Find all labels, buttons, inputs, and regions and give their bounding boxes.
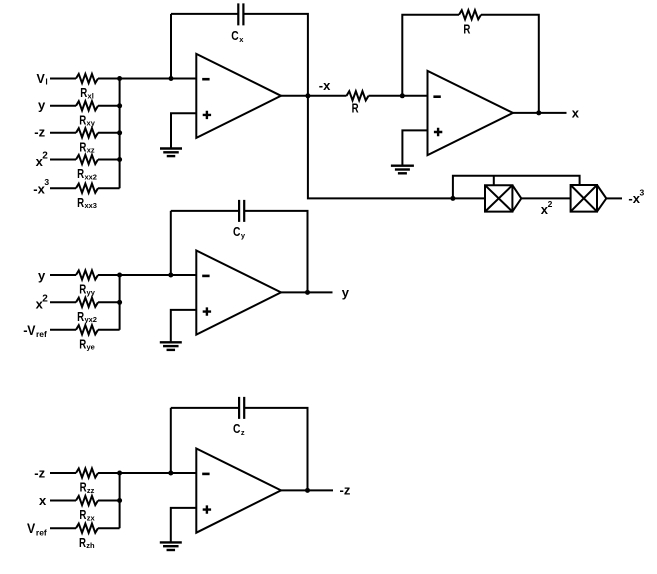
wire input row xl right lead [98,78,120,80]
junction U3 output node y [305,290,310,295]
svg-text:2: 2 [42,293,48,304]
svg-text:xx2: xx2 [84,172,97,181]
wire summing bus S2 [119,275,121,330]
svg-text:2: 2 [42,151,48,162]
svg-text:C: C [233,422,240,436]
wire U2 feedback rail right [481,15,539,113]
junction bus S1 at y=105.8 [117,103,122,108]
junction U1 output node -x [305,93,310,98]
svg-text:R: R [79,283,86,297]
op-amp U3 [196,251,281,335]
svg-text:R: R [77,196,84,210]
svg-text:y: y [342,285,350,300]
U3 non-inverting pin mark + [203,307,211,315]
junction bus S3 at y=473.0 [117,471,122,476]
junction bus S1 at y=78.5 [117,76,122,81]
svg-text:y: y [38,97,46,112]
svg-text:zz: zz [87,486,95,495]
resistor Rxl [76,74,98,83]
wire U3 non-inverting to ground [171,310,197,342]
wire input row zh right lead [98,527,120,529]
wire bus to U3 inverting input [120,274,197,276]
svg-text:2: 2 [548,199,553,209]
capacitor Cz [239,397,244,419]
junction U4 output node -z [305,488,310,493]
wire bus to U4 inverting input [120,472,197,474]
svg-text:ref: ref [36,329,47,339]
wire input row zx right lead [98,500,120,502]
wire input row zz left lead [50,472,76,474]
wire drop to A1 Y input [493,176,495,186]
multiplier A2 (cuber) [571,185,597,212]
ground GND3 [160,341,182,343]
wire input row xx3 right lead [98,187,120,189]
junction U2 output node x [536,110,541,115]
wire input row zh left lead [50,527,76,529]
wire A2 output (node -x^3) [606,197,622,199]
resistor Ryy [76,270,98,279]
wire input row xy left lead [50,105,76,107]
wire U1 feedback up [170,14,172,79]
resistor Rye [76,325,98,334]
svg-text:-x: -x [319,78,331,93]
svg-text:zx: zx [87,513,96,522]
capacitor Cy [239,200,244,222]
resistor Rzx [76,496,98,505]
junction feedback tap U3 [168,273,173,278]
op-amp U4 [196,449,281,533]
U2 non-inverting pin mark + [434,128,442,136]
svg-text:-z: -z [34,124,45,139]
svg-text:-z: -z [34,465,45,480]
svg-text:C: C [231,29,238,43]
resistor R (feedback of U2) [459,10,481,19]
wire R to U2 inverting input [369,95,428,97]
wire U4 feedback up [170,408,172,473]
wire input row xz left lead [50,132,76,134]
svg-text:x: x [39,493,47,508]
svg-text:R: R [79,113,86,127]
wire U3 feedback up [170,211,172,275]
svg-text:3: 3 [44,177,49,187]
junction bus S1 at y=159.5 [117,157,122,162]
wire input row yy right lead [98,274,120,276]
wire U2 feedback up [402,15,459,96]
svg-text:R: R [80,481,87,495]
svg-text:z: z [241,428,245,437]
svg-text:R: R [352,102,359,116]
wire U3 feedback rail right [244,211,307,293]
resistor Rxz [76,128,98,137]
U3 inverting pin mark - [202,275,209,278]
wire U1 output to R (node -x) [281,95,347,97]
resistor R (input of U2) [347,91,369,100]
wire U4 output (node -z) [281,489,333,491]
svg-text:ref: ref [36,527,47,537]
wire input row xx2 right lead [98,159,120,161]
wire input row yx2 right lead [98,301,120,303]
junction bus S3 at y=500.5 [117,498,122,503]
wire multiplier top rail [453,176,580,199]
svg-text:xz: xz [87,146,95,155]
svg-text:C: C [233,225,240,239]
svg-text:yy: yy [87,288,96,297]
wire input row xx3 left lead [50,187,76,189]
junction bus S2 at y=275.0 [117,273,122,278]
wire input row xl left lead [50,78,76,80]
capacitor Cx [238,3,243,25]
svg-text:zh: zh [86,541,95,550]
wire input row xx2 left lead [50,159,76,161]
wire U1 feedback rail left [171,13,238,15]
junction bus S2 at y=302.3 [117,300,122,305]
wire input row ye right lead [98,329,120,331]
wire U3 feedback rail left [171,210,239,212]
junction multiplier input node [450,196,455,201]
ground GND1 [160,147,182,149]
svg-text:V: V [37,72,46,86]
wire U3 output (node y) [281,291,333,293]
wire U2 non-inverting to ground [402,130,427,165]
svg-text:V: V [27,322,36,338]
svg-text:3: 3 [640,187,645,197]
svg-text:x: x [572,106,580,121]
wire input row yy left lead [50,274,76,276]
U2 inverting pin mark - [433,95,440,98]
svg-text:R: R [79,536,86,550]
resistor Rzz [76,468,98,477]
wire summing bus S3 [119,473,121,528]
svg-text:y: y [241,231,246,240]
wire junction to A1 X input [453,197,485,199]
svg-text:l: l [45,77,47,87]
junction U2 feedback tap [400,93,405,98]
svg-text:R: R [463,23,470,37]
wire bus to U1 inverting input [120,78,197,80]
resistor Rzh [76,524,98,533]
ground GND2 [391,164,414,166]
svg-text:R: R [80,86,87,100]
resistor Rxy [76,101,98,110]
op-amp U2 [428,71,513,155]
wire input row zz right lead [98,472,120,474]
svg-text:R: R [79,508,86,522]
svg-text:xx3: xx3 [84,201,97,210]
wire U4 feedback rail left [171,407,239,409]
wire input row zx left lead [50,500,76,502]
svg-text:R: R [79,337,86,351]
junction bus S1 at y=132.8 [117,130,122,135]
multiplier A1 (x squarer) [485,185,512,211]
svg-text:x: x [239,35,244,44]
wire input row xy right lead [98,105,120,107]
op-amp U1 [196,54,281,138]
U4 non-inverting pin mark + [203,505,211,513]
wire node -x down to multiplier input [308,96,453,199]
resistor Rxx2 [76,155,98,164]
wire summing bus S1 [119,79,121,189]
wire A1 output to A2 (node x^2) [521,197,570,199]
U4 inverting pin mark - [202,473,209,476]
U1 non-inverting pin mark + [203,111,211,119]
svg-text:y: y [38,268,46,283]
junction feedback tap U4 [168,471,173,476]
svg-text:ye: ye [87,343,95,352]
svg-text:R: R [77,167,84,181]
wire U4 non-inverting to ground [171,508,197,543]
svg-text:yx2: yx2 [84,315,97,324]
wire input row yx2 left lead [50,301,76,303]
resistor Rxx3 [76,184,98,193]
wire U1 feedback rail right [244,14,308,96]
resistor Ryx2 [76,298,98,307]
wire input row ye left lead [50,329,76,331]
svg-text:xy: xy [87,119,96,128]
wire input row xz right lead [98,132,120,134]
wire U2 output (node x) [513,112,567,114]
ground GND4 [160,541,182,543]
svg-text:xl: xl [88,91,94,100]
svg-text:R: R [77,310,84,324]
svg-text:V: V [27,520,36,536]
wire U1 non-inverting to ground [171,113,196,148]
wire U4 feedback rail right [244,408,307,491]
junction feedback tap U1 [169,76,174,81]
svg-text:-z: -z [340,482,351,497]
U1 inverting pin mark - [202,78,209,81]
